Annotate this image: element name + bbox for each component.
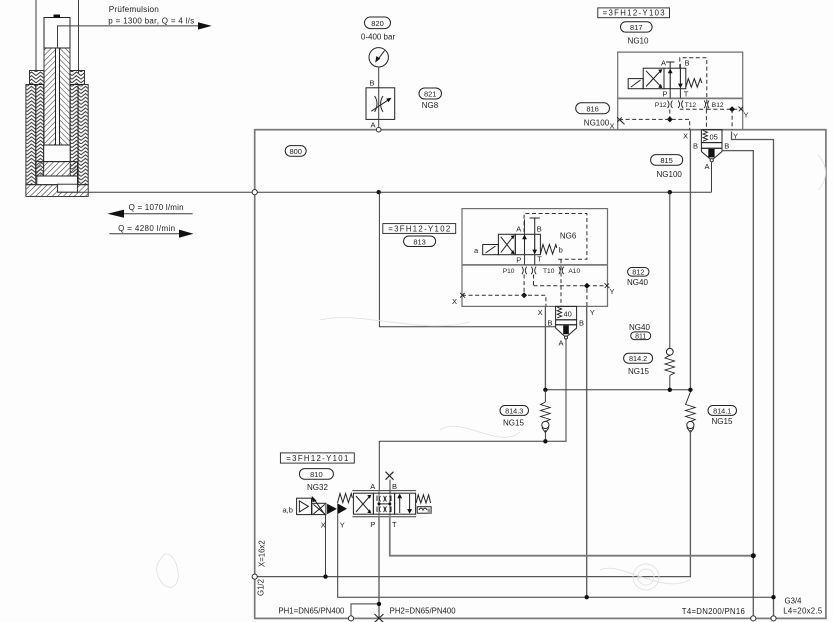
Y arrow marker top [739,107,744,112]
svg-text:PH2=DN65/PN400: PH2=DN65/PN400 [390,607,457,616]
dashed pilot B12 down to valve 815 [705,110,707,130]
815 spring [703,131,708,142]
817 port A stub (plugged) [669,62,671,68]
svg-text:P: P [663,89,668,98]
port circle X left edge [252,574,257,579]
label 814.1 [708,406,737,416]
svg-text:Y: Y [590,308,595,317]
junction dot T at tank rail [751,553,756,558]
feed bore lines [55,48,57,145]
svg-text:814.1: 814.1 [713,406,731,415]
junction dot 814.3 top [543,388,547,392]
817 spool square right (parallel arrows) [664,68,686,89]
label 811 [631,332,651,340]
svg-text:800: 800 [289,147,302,156]
svg-text:B: B [370,79,375,88]
X pilot line down [325,515,327,577]
svg-text:NG8: NG8 [422,101,439,110]
svg-text:T: T [684,89,689,98]
svg-text:X=16x2: X=16x2 [258,540,267,567]
svg-text:=3FH12-Y103: =3FH12-Y103 [603,9,665,18]
label 814.3 [500,406,529,416]
svg-text:T12: T12 [685,102,697,109]
junction dot Y at right rail [771,595,775,599]
wire branch to 812 B-left from pressure rail [379,192,555,327]
plunger hatched column right [60,48,71,145]
valve 813 housing [462,209,608,307]
wire 815 B right to tank rail [722,151,753,619]
pilot solid triangle 2 [337,503,347,514]
svg-text:P12: P12 [655,102,667,109]
svg-text:A: A [516,224,521,233]
gauge needle [378,51,385,60]
junction dot X pilot [323,574,327,578]
wire gauge to valve 821 [378,67,380,88]
valve 817 housing [618,52,743,130]
svg-text:=3FH12-Y101: =3FH12-Y101 [286,454,348,463]
svg-text:P10: P10 [503,268,515,275]
svg-text:820: 820 [371,19,384,28]
svg-text:NG40: NG40 [627,278,648,287]
label 800 [285,146,306,157]
throttle arcs [375,96,377,112]
label 817 [621,22,653,32]
svg-text:X: X [452,297,457,306]
orifice B10 [531,267,536,275]
cartridge valve 815 body [701,130,722,143]
813 port A stub [524,219,526,234]
813 subplate line [462,264,608,266]
svg-text:NG15: NG15 [712,417,733,426]
X arrow marker 813 [460,293,465,298]
svg-text:B: B [548,319,553,328]
X arrow marker [620,120,625,125]
block below chamber [36,162,78,176]
817 port through-lines [669,62,671,98]
810 right solenoid box [417,507,431,514]
dashed X pilot line of 817 [619,119,690,129]
svg-text:813: 813 [413,237,426,246]
pressure chamber (white) [44,145,70,162]
label 813 [404,236,436,247]
white spacer bar [37,176,78,185]
manifold block 800 outline [255,130,826,619]
svg-text:T: T [392,520,397,529]
815 poppet funnel [701,148,722,159]
svg-text:T4=DN200/PN16: T4=DN200/PN16 [682,607,745,616]
check valve 814.1 (spring top, ball below) [686,392,696,422]
815 port band [701,143,722,149]
svg-text:B: B [724,141,729,150]
svg-text:40: 40 [564,310,572,319]
gland block right [70,71,85,85]
svg-text:Q = 4280 l/min: Q = 4280 l/min [118,224,175,233]
svg-text:B: B [685,59,690,68]
813 port T stub [534,255,536,265]
svg-text:NG32: NG32 [307,483,328,492]
810 port B stub plugged [389,480,391,494]
orifice T12 [678,101,683,109]
dashed X pilot line of 813 [462,295,546,306]
gland block left [30,71,45,85]
valve 810 pilot box (proportional X) [312,503,326,514]
label 816 [576,103,610,114]
junction dot at 814.2 branch [668,190,672,194]
svg-text:A10: A10 [568,268,580,275]
port circle PH1 [348,616,353,621]
svg-text:815: 815 [660,156,673,165]
wire 821 A to manifold [378,119,380,129]
port circle at manifold top [376,127,381,132]
label 812 [628,268,649,277]
junction dot at gauge branch [377,190,381,194]
svg-text:NG10: NG10 [628,37,649,46]
label box =3FH12-Y103 [598,8,670,18]
wire 812 A down [379,339,566,492]
svg-text:b: b [559,246,563,255]
817 port B stub [679,64,681,68]
port circle T4 [751,616,756,621]
liner band right [70,85,78,177]
813 pilot interface dashed box [524,214,587,260]
810 right spring [416,495,431,503]
label box =3FH12-Y102 [383,224,456,234]
817 spool square left (crossed arrows) [643,68,664,89]
junction diamond on X pilot 813 [521,292,527,298]
label 815 [651,155,683,166]
wire through 821 [378,88,380,120]
arrowhead feed line [198,22,212,29]
svg-text:814.2: 814.2 [629,354,647,363]
liner band left [36,85,44,177]
svg-text:817: 817 [630,23,643,32]
svg-text:L4=20x2.5: L4=20x2.5 [783,606,823,615]
svg-text:Prüfemulsion: Prüfemulsion [109,5,159,14]
Y pilot line down and Y rail [338,514,774,597]
svg-text:NG15: NG15 [503,419,524,428]
label box =3FH12-Y101 [280,453,354,463]
svg-text:X: X [683,131,688,140]
X line of 812 (solid) [544,306,546,389]
pressure gauge 820 [369,48,388,67]
plunger black vent cap [54,15,61,19]
svg-text:X: X [610,122,615,131]
svg-text:NG6: NG6 [560,232,577,241]
svg-text:B: B [579,319,584,328]
port cross PH2 [375,614,384,622]
wire 815 A down to pressure rail [711,162,713,192]
orifice P12 [668,101,673,109]
frame line left [35,0,37,71]
label 810 [299,469,333,480]
810 port through-lines [378,491,380,517]
throttle adjust arrow [371,100,388,111]
svg-text:PH1=DN65/PN400: PH1=DN65/PN400 [278,607,345,616]
orifice P10 [522,267,527,275]
junction dot 814.3 bottom [543,439,547,443]
wire Y net: stub to right rail [732,132,774,619]
test cylinder assembly (specimen cross-section) [26,0,88,196]
label 821 [419,88,442,99]
throttle valve 821 body [366,88,395,120]
dashed pilot B10 to Y [533,275,535,286]
dashed pilot P12 down to X node [669,110,671,120]
valve 810 pilot box (hollow triangle) [297,498,312,514]
813 spool square right (parallel arrows) [515,234,540,254]
Y arrow marker 813 [605,283,610,288]
junction dot Y at 812 line [585,595,589,599]
check valve 814.2 (ball top, spring below) [669,192,671,348]
svg-text:=3FH12-Y102: =3FH12-Y102 [388,224,450,233]
svg-text:a: a [474,246,479,255]
faint watermark stamp [157,155,826,590]
817 pilot interface dashed box [680,58,707,109]
dashed Y down through housing [586,289,588,307]
junction dot P/PH1 [377,602,381,606]
svg-text:NG15: NG15 [628,367,649,376]
wire: feed line to plunger [58,26,199,48]
812 poppet funnel [556,325,577,337]
svg-text:A: A [705,162,710,171]
svg-text:05: 05 [710,133,718,142]
pilot solid triangle 1 [327,504,337,515]
svg-text:B: B [693,141,698,150]
817 port P stub [669,89,671,99]
812 port band [556,320,577,325]
810 P line down to PH ports [378,517,380,619]
svg-text:A: A [661,59,666,68]
svg-text:821: 821 [424,90,437,99]
body outer wall left [26,85,36,185]
815 tip circle [710,159,713,162]
810 left spring [338,494,353,504]
svg-text:A: A [559,338,564,347]
X main line from top port [689,130,691,390]
X drain line down to left port [255,430,691,577]
dashed pilot T10 down to 812 spring [560,259,562,306]
svg-text:811: 811 [635,333,646,340]
svg-text:A: A [370,482,375,491]
svg-text:812: 812 [632,268,644,277]
813 port through-lines [524,219,526,265]
arrow right (supply flow) [109,233,180,235]
812 spring [557,307,562,318]
svg-text:G1/2: G1/2 [257,579,266,596]
dashed Y pilot of 817 [707,108,740,110]
810 spool square right (parallel arrows) [395,493,416,514]
dashed Y stub into manifold [731,109,733,130]
body outer wall right [78,85,88,185]
813 spool square left (crossed arrows) [498,234,515,254]
svg-text:A: A [371,121,376,130]
dashed pilot P10 down to X node [523,275,525,296]
812 poppet black seat [563,325,569,334]
port circle left edge (test line) [252,190,257,195]
svg-text:0-400 bar: 0-400 bar [361,33,396,42]
svg-text:T: T [537,254,542,263]
svg-text:P: P [370,520,375,529]
frame line right [78,0,80,73]
813 solenoid a box [483,245,499,255]
label 814.2 [624,353,653,363]
813 port P stub [524,255,526,265]
817 port T stub [679,89,681,99]
plunger top cap rect [44,18,70,49]
810 spool square middle (blocked centre) [373,493,394,514]
svg-text:p = 1300 bar, Q = 4 l/s: p = 1300 bar, Q = 4 l/s [108,16,194,25]
810 T line to tank rail [390,517,754,556]
junction dot 814.2 bottom [668,388,672,392]
svg-text:G3/4: G3/4 [785,596,803,605]
solenoid box of 817 [628,79,643,89]
815 poppet black seat [708,149,714,158]
PH1 branch [351,604,379,619]
svg-text:B: B [537,224,542,233]
svg-text:Y: Y [610,287,615,296]
svg-text:810: 810 [310,470,323,479]
plunger hatched column left [44,48,56,145]
svg-text:Q = 1070 l/min: Q = 1070 l/min [129,203,184,212]
drain notch (white) [58,184,78,192]
svg-text:Y: Y [744,111,749,120]
junction diamond on X pilot [667,116,673,122]
817 return spring [686,79,702,88]
junction dot X line [688,388,692,392]
svg-text:X: X [538,308,543,317]
svg-text:P: P [516,255,521,264]
813 return spring b [540,245,556,255]
svg-text:NG40: NG40 [629,323,650,332]
svg-text:Y: Y [340,521,345,530]
svg-text:NG100: NG100 [584,119,610,128]
cartridge valve 812 body [556,306,577,319]
orifice T10 [559,267,564,275]
bottom block [26,185,88,197]
svg-text:816: 816 [586,104,599,113]
orifice B12 [704,101,709,109]
svg-text:a,b: a,b [283,506,293,515]
817 subplate line [618,97,743,99]
arrow left (return flow) [110,213,193,215]
X/B transfer rail [545,389,690,391]
813 port B stub (plugged) [534,218,536,234]
810 bottom rail line [352,516,416,518]
810 spool square left (crossed arrows) [353,493,373,514]
port circle L4 [771,616,776,621]
check valve 814.3 (spring top, ball below) [544,390,546,402]
svg-text:814.3: 814.3 [505,406,523,415]
810 top rail line [352,490,416,492]
Y line of 812 (solid) [586,306,588,597]
svg-text:T10: T10 [543,268,555,275]
svg-text:NG100: NG100 [657,170,683,179]
high pressure test rail 1300 bar [58,191,712,193]
svg-text:B12: B12 [712,102,724,109]
label 820 [365,17,391,29]
svg-text:B: B [392,482,397,491]
812 tip circle [565,336,568,339]
dashed Y pilot line of 813 [534,285,607,287]
